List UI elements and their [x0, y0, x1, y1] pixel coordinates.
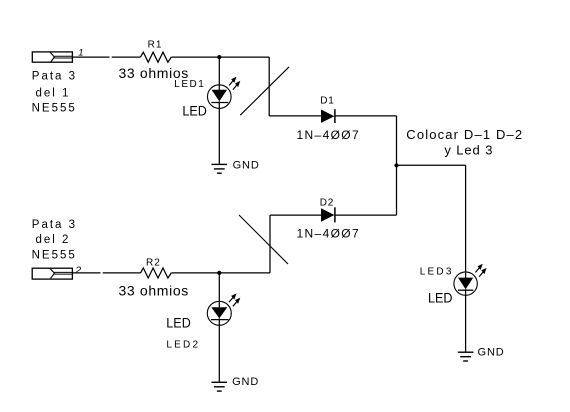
- svg-text:D2: D2: [320, 198, 334, 209]
- slash mark (bottom): [239, 215, 288, 264]
- ground (LED3): [458, 352, 474, 361]
- svg-text:Pata 3: Pata 3: [32, 70, 77, 82]
- wire corner to D1: [269, 115, 321, 117]
- svg-text:NE555: NE555: [32, 250, 77, 262]
- svg-text:1N–4ØØ7: 1N–4ØØ7: [297, 227, 360, 241]
- wire J2 to R2: [72, 272, 140, 274]
- resistor R1: [141, 52, 172, 62]
- svg-text:LED: LED: [428, 291, 453, 306]
- svg-text:LED2: LED2: [166, 340, 200, 351]
- svg-text:LED1: LED1: [174, 79, 205, 90]
- svg-text:y Led 3: y Led 3: [444, 142, 493, 157]
- wire junction to LED3 corner: [397, 164, 466, 166]
- svg-text:NE555: NE555: [32, 102, 77, 114]
- svg-text:33 ohmios: 33 ohmios: [119, 282, 189, 298]
- connector J1 (Pata 3 del 1 NE555): [32, 52, 72, 62]
- svg-text:GND: GND: [478, 346, 505, 358]
- wire down to LED3: [465, 165, 467, 272]
- ground (LED1): [212, 164, 228, 173]
- diode D2: [321, 207, 335, 222]
- svg-text:del 1: del 1: [36, 87, 71, 99]
- wire LED1 to ground: [218, 101, 220, 164]
- wire J1 to R1: [72, 56, 140, 58]
- wire corner down to D1 row: [268, 57, 270, 116]
- svg-text:LED: LED: [166, 315, 191, 330]
- LED LED2: [207, 293, 240, 325]
- svg-text:del 2: del 2: [36, 234, 71, 246]
- diode D1: [321, 109, 335, 123]
- LED LED3: [454, 264, 487, 296]
- LED LED1: [208, 77, 241, 109]
- svg-text:Colocar D–1 D–2: Colocar D–1 D–2: [406, 127, 523, 142]
- wire corner to D2: [270, 214, 321, 216]
- wire junction down to LED1: [218, 57, 220, 85]
- svg-text:R1: R1: [148, 39, 163, 50]
- wire D2 to right vertical: [335, 214, 397, 216]
- svg-text:GND: GND: [233, 159, 260, 171]
- connector J2 (Pata 3 del 2 NE555): [32, 268, 72, 279]
- wire corner up to D2 row: [269, 215, 271, 273]
- resistor R2: [141, 268, 172, 278]
- svg-text:GND: GND: [232, 376, 259, 388]
- junction node at R1/LED1: [217, 55, 221, 59]
- svg-text:LED: LED: [182, 104, 207, 119]
- svg-text:1N–4ØØ7: 1N–4ØØ7: [297, 128, 360, 142]
- ground (LED2): [212, 382, 228, 391]
- junction node D1/D2/LED3: [394, 163, 398, 167]
- svg-text:R2: R2: [146, 258, 161, 269]
- wire D1 to right corner: [335, 115, 397, 117]
- svg-text:Pata 3: Pata 3: [32, 219, 77, 231]
- junction node at R2/LED2: [217, 271, 221, 275]
- wire LED3 to ground: [465, 289, 467, 352]
- wire R2 to corner: [171, 272, 270, 274]
- slash mark (top): [240, 67, 289, 115]
- svg-text:D1: D1: [320, 96, 334, 107]
- wire R1 to corner: [171, 56, 269, 58]
- svg-text:LED3: LED3: [420, 266, 454, 277]
- wire right vertical D1 to D2: [396, 116, 398, 215]
- wire junction down to LED2: [218, 273, 220, 302]
- svg-text:2: 2: [74, 265, 81, 277]
- wire LED2 to ground: [218, 318, 220, 382]
